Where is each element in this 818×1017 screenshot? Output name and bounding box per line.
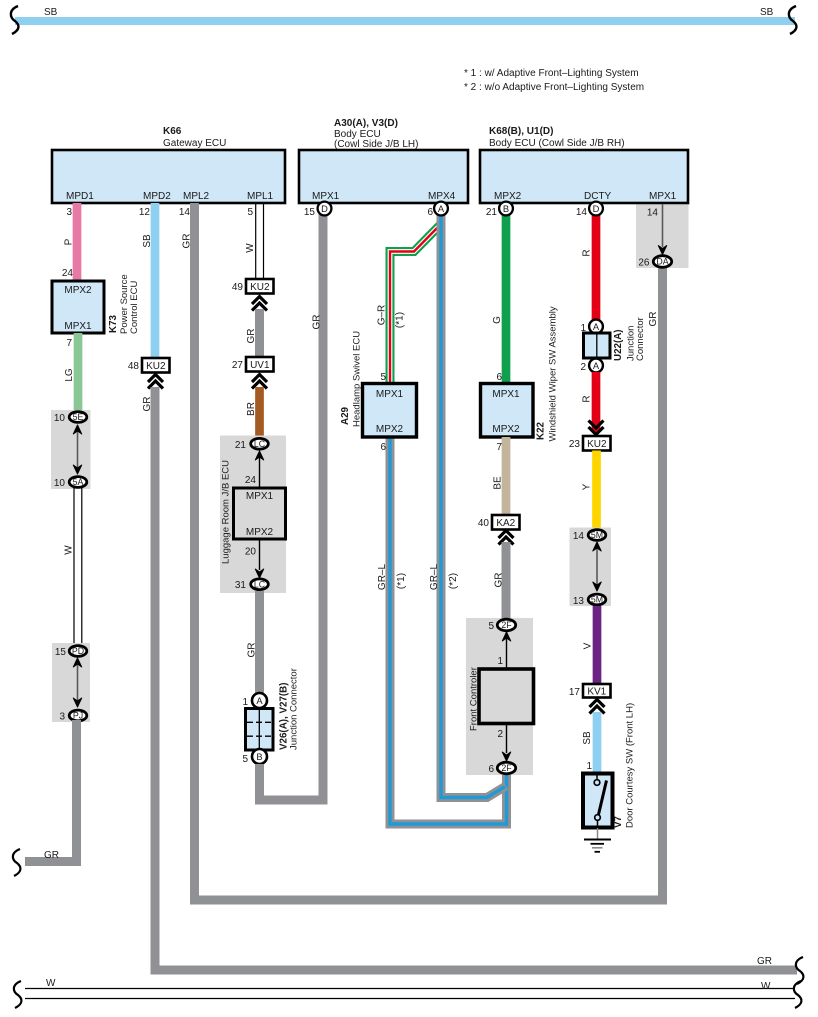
connector block 5M / 5M: [570, 528, 612, 608]
svg-text:MPX2: MPX2: [246, 527, 274, 538]
pin circle D (A30 MPX1): [318, 202, 332, 216]
svg-text:MPL2: MPL2: [183, 191, 210, 202]
svg-text:GR: GR: [757, 956, 772, 967]
svg-text:MPD2: MPD2: [143, 191, 171, 202]
connector block 5E / 5A: [51, 410, 91, 489]
svg-text:K73: K73: [108, 314, 119, 333]
connector UV1 pin 27: [232, 357, 274, 372]
svg-text:A30(A), V3(D): A30(A), V3(D): [334, 118, 398, 129]
svg-text:GR: GR: [142, 397, 153, 412]
svg-text:26: 26: [638, 258, 650, 269]
svg-text:Y: Y: [582, 483, 593, 490]
svg-text:* 1 : w/ Adaptive Front–Lighti: * 1 : w/ Adaptive Front–Lighting System: [464, 68, 639, 79]
svg-text:2: 2: [497, 729, 503, 740]
svg-text:GR: GR: [648, 312, 659, 327]
svg-text:14: 14: [179, 207, 191, 218]
connector KU2 pin 23: [569, 436, 611, 451]
svg-text:MPX2: MPX2: [64, 285, 92, 296]
wire SB (KV1 17 to V7 pin 1): [582, 712, 597, 774]
svg-text:Gateway ECU: Gateway ECU: [163, 138, 226, 149]
wire SB (K66 MPD2 pin 12 to KU2): [139, 203, 155, 358]
svg-text:5A: 5A: [73, 477, 84, 487]
wire W (5A to PD): [64, 488, 82, 645]
svg-text:R: R: [582, 395, 593, 402]
svg-text:MPL1: MPL1: [247, 191, 274, 202]
svg-text:W: W: [245, 243, 256, 253]
wire GR (PJ to left edge exit): [25, 720, 77, 862]
wire GR (KU2 49 to UV1 27): [246, 309, 260, 357]
svg-text:GR: GR: [494, 573, 505, 588]
svg-text:MPX2: MPX2: [492, 424, 520, 435]
pin circle B (K68 MPX2): [499, 202, 513, 216]
arrow chevrons above KU2 23 (pointing down): [589, 421, 604, 435]
pin circle A (A30 MPX4): [434, 202, 448, 216]
svg-text:GR–L: GR–L: [429, 564, 440, 591]
svg-text:KU2: KU2: [250, 282, 270, 293]
svg-text:P: P: [64, 238, 75, 245]
svg-text:MPX1: MPX1: [312, 191, 340, 202]
break symbol left GR exit: [13, 849, 21, 876]
svg-text:15: 15: [304, 207, 316, 218]
svg-text:GR: GR: [246, 329, 257, 344]
svg-text:40: 40: [478, 518, 490, 529]
wire G (K68 MPX2 pin 21 B to K22 MPX1 pin 6): [486, 207, 506, 384]
svg-text:PJ: PJ: [73, 711, 83, 721]
arrow chevrons below KA2 40: [499, 531, 514, 545]
ECU K68(B),U1(D) Body ECU (Cowl Side J/B RH): [480, 126, 688, 203]
svg-text:MPX1: MPX1: [64, 321, 92, 332]
svg-text:MPX1: MPX1: [376, 389, 404, 400]
svg-text:DA: DA: [656, 257, 668, 267]
svg-text:10: 10: [54, 413, 66, 424]
svg-text:48: 48: [128, 361, 140, 372]
wire LG (K73 pin 7 to connector 5E): [64, 333, 78, 412]
svg-text:24: 24: [245, 475, 257, 486]
wire GR-L *1 (A29 MPX2 pin 6 to front controller 2F 6): [377, 437, 507, 824]
svg-text:GR: GR: [44, 850, 59, 861]
svg-text:Control ECU: Control ECU: [129, 281, 140, 334]
wire R (K68 DCTY pin 14 D to U22 pin 1): [576, 207, 596, 320]
wire GR (KA2 40 to front controller 2F 5): [494, 542, 507, 620]
svg-text:6: 6: [496, 372, 502, 383]
svg-text:G–R: G–R: [377, 305, 388, 326]
svg-text:5M: 5M: [591, 595, 603, 605]
svg-text:Windshield Wiper SW Assembly: Windshield Wiper SW Assembly: [548, 306, 559, 441]
svg-text:D: D: [321, 204, 328, 214]
svg-text:1: 1: [242, 697, 248, 708]
svg-text:LC: LC: [254, 439, 266, 449]
svg-text:A: A: [593, 322, 600, 332]
svg-text:DCTY: DCTY: [584, 191, 612, 202]
svg-text:A: A: [438, 204, 445, 214]
svg-text:V: V: [583, 642, 594, 649]
wire GR-L *2 (A30 MPX4 pin 6 A down, joining 2F wire): [427, 207, 506, 798]
svg-text:SB: SB: [44, 7, 58, 18]
wire R (U22 pin 2 to KU2 23): [582, 372, 597, 432]
svg-text:1: 1: [586, 761, 592, 772]
svg-text:12: 12: [139, 207, 151, 218]
svg-text:GR–L: GR–L: [377, 564, 388, 591]
ECU A29 Headlamp Swivel ECU: [340, 331, 417, 437]
connector KV1 pin 17: [569, 684, 611, 698]
svg-text:5M: 5M: [591, 530, 603, 540]
connector KU2 pin 49: [232, 279, 274, 294]
svg-text:W: W: [64, 545, 75, 555]
svg-text:KU2: KU2: [587, 439, 607, 450]
svg-text:MPD1: MPD1: [66, 191, 94, 202]
wire GR (LC 31 to junction connector A): [247, 591, 260, 694]
note legend *1 *2: [464, 68, 644, 93]
connector KU2 pin 48: [128, 358, 170, 373]
connector KA2 pin 40: [478, 515, 520, 530]
svg-text:31: 31: [235, 580, 247, 591]
svg-text:SB: SB: [142, 234, 153, 248]
svg-text:R: R: [582, 249, 593, 256]
ECU K22 Windshield Wiper SW Assembly: [481, 306, 559, 441]
break symbol top-right: [789, 6, 797, 34]
svg-text:SB: SB: [760, 7, 774, 18]
svg-text:A: A: [256, 696, 263, 706]
svg-text:* 2 : w/o Adaptive Front–Light: * 2 : w/o Adaptive Front–Lighting System: [464, 82, 644, 93]
svg-text:3: 3: [66, 207, 72, 218]
wire BE (K22 MPX2 pin 7 to KA2 40): [493, 437, 507, 516]
svg-text:W: W: [46, 978, 56, 989]
svg-text:A: A: [593, 361, 600, 371]
wire P (K66 MPD1 pin 3 to K73 pin 24): [62, 203, 77, 281]
svg-text:U22(A): U22(A): [613, 329, 624, 361]
svg-text:2: 2: [580, 362, 586, 373]
svg-text:20: 20: [245, 547, 257, 558]
svg-text:PD: PD: [72, 646, 84, 656]
arrow chevrons below UV1 27: [252, 375, 267, 389]
svg-text:GR: GR: [182, 234, 193, 249]
svg-text:MPX2: MPX2: [376, 424, 404, 435]
break symbol bottom-right W: [794, 981, 802, 1008]
svg-text:7: 7: [66, 338, 72, 349]
arrow chevrons below KU2 49: [252, 297, 267, 311]
svg-text:49: 49: [232, 282, 244, 293]
wire W (K66 MPL1 pin 5 to KU2 49): [245, 203, 264, 280]
wire BR (UV1 27 to LC 21): [246, 387, 260, 438]
svg-text:21: 21: [235, 440, 247, 451]
svg-text:BR: BR: [246, 402, 257, 416]
svg-text:(*2): (*2): [448, 573, 459, 589]
svg-text:21: 21: [486, 207, 498, 218]
svg-text:MPX1: MPX1: [246, 491, 274, 502]
svg-text:5E: 5E: [73, 412, 84, 422]
svg-text:23: 23: [569, 439, 581, 450]
svg-text:Body ECU (Cowl Side J/B RH): Body ECU (Cowl Side J/B RH): [489, 138, 625, 149]
svg-text:6: 6: [427, 207, 433, 218]
svg-text:13: 13: [573, 596, 585, 607]
svg-text:Junction Connector: Junction Connector: [289, 668, 300, 750]
junction connector V26(A),V27(B): [242, 668, 299, 765]
svg-text:Connector: Connector: [635, 317, 646, 361]
svg-text:(*1): (*1): [396, 573, 407, 589]
svg-text:14: 14: [576, 207, 588, 218]
svg-text:MPX4: MPX4: [428, 191, 456, 202]
svg-text:K68(B), U1(D): K68(B), U1(D): [489, 126, 553, 137]
ECU block Luggage Room J/B ECU: [220, 436, 286, 594]
wire Y (KU2 23 to 5M 14): [582, 451, 597, 530]
wire GR (junction B to A30 MPX1 pin 15 D): [260, 207, 324, 800]
svg-text:6: 6: [488, 764, 494, 775]
wire GR (K66 MPL2 pin 14 loop to DA): [179, 203, 663, 900]
svg-text:3: 3: [59, 712, 65, 723]
svg-text:K22: K22: [536, 421, 547, 440]
svg-text:A29: A29: [340, 406, 351, 425]
svg-text:B: B: [256, 752, 262, 762]
connector block PD / PJ: [52, 643, 90, 723]
svg-text:KU2: KU2: [146, 361, 166, 372]
ECU K73 Power Source Control ECU: [52, 274, 140, 334]
svg-text:MPX1: MPX1: [649, 191, 677, 202]
wire SB power bus (top): [15, 7, 795, 25]
svg-text:D: D: [593, 204, 600, 214]
switch V7 Door Courtesy SW (Front LH): [583, 703, 636, 828]
svg-text:Headlamp Swivel ECU: Headlamp Swivel ECU: [352, 331, 363, 427]
wire W bus (bottom): [25, 978, 795, 999]
svg-text:MPX1: MPX1: [492, 389, 520, 400]
connector block DA (K68 MPX1 pin 14): [636, 205, 689, 327]
svg-text:5: 5: [380, 372, 386, 383]
break symbol top-left: [11, 6, 19, 34]
ECU K66 Gateway ECU: [52, 126, 285, 203]
arrow chevrons below KU2 48: [148, 375, 163, 389]
svg-text:V7: V7: [613, 815, 624, 828]
svg-text:2F: 2F: [501, 763, 512, 773]
junction connector U22(A): [580, 317, 646, 373]
svg-text:LG: LG: [64, 368, 75, 382]
break symbol bottom-left W: [14, 981, 22, 1008]
svg-text:W: W: [761, 981, 771, 992]
svg-text:1: 1: [497, 656, 503, 667]
ECU A30(A),V3(D) Body ECU (Cowl Side J/B LH): [299, 118, 468, 203]
svg-text:B: B: [503, 204, 509, 214]
svg-text:Front Controler: Front Controler: [469, 667, 480, 731]
svg-text:SB: SB: [582, 731, 593, 745]
svg-text:BE: BE: [493, 476, 504, 490]
wire G-R (A30 MPX4 pin 6 A to A29 MPX1 pin 5): [377, 214, 442, 384]
svg-text:GR: GR: [312, 315, 323, 330]
svg-text:5: 5: [242, 754, 248, 765]
svg-text:7: 7: [496, 442, 502, 453]
svg-text:5: 5: [488, 621, 494, 632]
svg-text:MPX2: MPX2: [494, 191, 522, 202]
svg-text:UV1: UV1: [250, 360, 270, 371]
svg-text:17: 17: [569, 687, 581, 698]
pin circle D (K68 DCTY): [589, 202, 603, 216]
svg-text:G: G: [492, 316, 503, 324]
svg-text:15: 15: [55, 647, 67, 658]
svg-text:2F: 2F: [501, 620, 512, 630]
svg-text:GR: GR: [247, 643, 258, 658]
svg-text:(Cowl Side J/B LH): (Cowl Side J/B LH): [334, 139, 418, 150]
wire V (5M 13 to KV1 17): [583, 606, 598, 685]
wire GR (KU2 48 down to bottom right exit): [142, 387, 797, 970]
svg-text:14: 14: [647, 208, 659, 219]
svg-text:6: 6: [380, 442, 386, 453]
svg-text:27: 27: [232, 360, 244, 371]
svg-text:24: 24: [62, 268, 74, 279]
svg-text:Luggage Room J/B ECU: Luggage Room J/B ECU: [221, 460, 232, 564]
svg-text:LC: LC: [254, 579, 266, 589]
svg-text:KV1: KV1: [587, 687, 606, 698]
svg-text:5: 5: [247, 207, 253, 218]
svg-text:(*1): (*1): [395, 312, 406, 328]
arrow chevrons below KV1 17: [590, 700, 605, 714]
svg-text:10: 10: [54, 478, 66, 489]
svg-text:Door Courtesy SW (Front LH): Door Courtesy SW (Front LH): [625, 703, 636, 828]
svg-text:KA2: KA2: [496, 518, 515, 529]
svg-text:14: 14: [573, 531, 585, 542]
break symbol bottom-right GR exit: [796, 957, 804, 984]
block Front Controller: [466, 618, 534, 775]
ground (below V7): [584, 828, 611, 852]
svg-text:K66: K66: [163, 126, 182, 137]
